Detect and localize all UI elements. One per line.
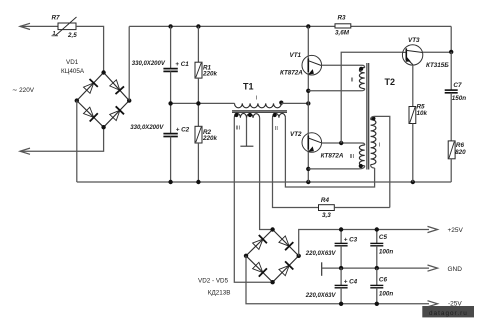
transformer T1 winding II (273, 113, 286, 117)
node bridge VD1 bottom (101, 125, 105, 129)
transformer T2 core (366, 63, 368, 170)
wire +25V rail (299, 230, 429, 256)
node C1-C2 junction (168, 101, 172, 105)
capacitor C5 (100n) (376, 230, 378, 244)
node bridge VD2-VD5 left (244, 254, 248, 258)
capacitor C1 (330uF 200V) (170, 26, 172, 68)
diode VD1.4 (bottom-right arm) (110, 110, 120, 120)
transformer T2 winding II (359, 68, 364, 89)
svg-text:III: III (236, 125, 241, 131)
svg-text:VT1: VT1 (290, 52, 302, 59)
svg-text:КТ315Б: КТ315Б (426, 62, 449, 69)
node C1 top (168, 24, 172, 28)
resistor R5 (10k) (409, 107, 416, 124)
wire bridge VD1 diamond edges (77, 73, 129, 128)
svg-text:220,0Х63V: 220,0Х63V (305, 251, 337, 257)
diode VD1.1 (left-top arm) (84, 83, 94, 93)
svg-text:100n: 100n (379, 248, 394, 255)
node VT3 collector junction (449, 50, 453, 54)
node C3 top (339, 227, 343, 231)
wire bridge left node to minus rail (76, 101, 78, 182)
transistor VT2 (KT872A) (302, 133, 322, 153)
arrow +25V output (428, 226, 438, 232)
transformer T2 winding III (359, 145, 364, 166)
node R1 top (196, 24, 200, 28)
wire T1 II left leg down to R4 (273, 118, 319, 208)
svg-text:100n: 100n (379, 291, 394, 298)
svg-text:R4: R4 (321, 197, 330, 204)
svg-text:КЦ405А: КЦ405А (61, 68, 85, 75)
wire VT3 base to VT2 base junction (341, 52, 402, 143)
wire -25V rail (246, 256, 429, 304)
node T1 winding II phase dot (273, 113, 277, 117)
svg-text:R3: R3 (338, 15, 347, 22)
svg-text:II: II (275, 126, 279, 132)
node bridge VD2-VD5 top (270, 227, 274, 231)
capacitor C6 (100n) (376, 268, 378, 285)
wire GND rail (322, 267, 429, 269)
svg-text:3,6M: 3,6M (335, 29, 350, 36)
node T2 winding I phase dot (371, 116, 375, 120)
arrow -25V output (428, 301, 438, 307)
svg-text:III: III (350, 154, 355, 160)
svg-text:VT3: VT3 (408, 37, 420, 44)
wire VT2 base to T2 winding III top (322, 143, 365, 145)
wire VT2 emitter down to minus rail (307, 152, 309, 182)
node T1 winding IIIb phase dot (248, 113, 252, 117)
svg-text:R7: R7 (52, 15, 61, 22)
svg-text:КТ872А: КТ872А (321, 152, 344, 159)
svg-text:220,0Х63V: 220,0Х63V (305, 293, 337, 299)
svg-text:КТ872А: КТ872А (280, 70, 303, 77)
wire T1 primary to VT1/VT2 midpoint (281, 102, 308, 104)
ground stub bar at output (321, 262, 323, 276)
wire bridge VD2-VD5 diamond edges (246, 230, 299, 283)
transformer T1 primary winding I (235, 103, 282, 107)
node VT2 emitter junction to T2 III (306, 167, 310, 171)
svg-text:C5: C5 (379, 234, 388, 241)
node bridge VD1 top (101, 70, 105, 74)
wire VT1 collector (307, 26, 309, 55)
wire VT2 emitter junction to T2 winding III bottom (308, 166, 364, 169)
diode VD1.3 (left-bottom arm) (84, 107, 94, 117)
wire T1 III center tap to bar (246, 118, 248, 146)
node C5-C6 junction (375, 266, 379, 270)
node C3-C4 junction GND (339, 266, 343, 270)
svg-text:220k: 220k (202, 70, 218, 77)
node R2 bottom (196, 180, 200, 184)
svg-text:C7: C7 (453, 82, 462, 89)
svg-text:T1: T1 (243, 82, 254, 92)
wire T2 winding I bottom curve (371, 165, 375, 168)
svg-text:2,5: 2,5 (67, 32, 77, 39)
capacitor C4 (220uF 63V) (340, 268, 342, 285)
resistor R6 (820) (448, 141, 455, 159)
arrow GND output (428, 265, 438, 271)
resistor R4 (3.3) (319, 205, 335, 211)
svg-text:VD2 - VD5: VD2 - VD5 (198, 277, 229, 284)
svg-text:10k: 10k (417, 110, 428, 117)
wire VT3 emitter to R5 (412, 65, 414, 106)
node T2 winding III phase dot (359, 164, 363, 168)
capacitor C3 (220uF 63V) (340, 230, 342, 244)
diode VD1.2 (top-right arm) (110, 80, 120, 90)
resistor R2 (220k) (197, 103, 199, 126)
transformer T1 winding IIIa (234, 113, 246, 117)
svg-text:I: I (379, 142, 381, 148)
resistor R1 (220k) (197, 26, 199, 62)
resistor R3 (3.6M) in top rail (335, 24, 351, 28)
transformer T2 winding I (371, 120, 376, 165)
wire T1 III left leg to VD2 bridge bottom (234, 118, 272, 282)
node R5 bottom on rail (411, 180, 415, 184)
svg-text:220k: 220k (202, 135, 218, 142)
wire top rail (+DC) (129, 25, 335, 27)
node VT2 base junction (339, 141, 343, 145)
node T1 winding IIIa phase dot (234, 113, 238, 117)
capacitor C7 (150n) (450, 52, 452, 90)
resistor R7 (fusible, 2.5 ohm) (58, 23, 76, 30)
node bridge VD1 left (75, 98, 79, 102)
node R1-R2 junction (196, 101, 200, 105)
svg-text:+ C3: + C3 (344, 237, 358, 244)
node bridge VD1 right (127, 98, 131, 102)
svg-text:330,0Х200V: 330,0Х200V (130, 125, 164, 131)
svg-text:820: 820 (455, 149, 466, 156)
svg-text:II: II (351, 77, 355, 83)
wire minus rail (77, 181, 451, 183)
node T1 primary right end (phase dot) (279, 101, 283, 105)
svg-text:∼ 220V: ∼ 220V (12, 87, 35, 94)
svg-text:+ C1: + C1 (175, 61, 189, 68)
diode VD2 (left-top arm) (253, 239, 263, 249)
wire VT1 emitter to midpoint and VT2 collector (307, 75, 309, 133)
capacitor C2 (330uF 200V) (170, 103, 172, 133)
wire T1 II right leg down to T2 winding I bottom (285, 118, 374, 187)
node T2 winding II phase dot (359, 67, 363, 71)
wire VT3 collector to C7 column (423, 51, 451, 53)
svg-text:+ C4: + C4 (344, 278, 358, 285)
watermark datagor.ru (422, 306, 474, 317)
svg-text:datagor.ru: datagor.ru (429, 310, 468, 317)
svg-text:3,3: 3,3 (322, 212, 331, 219)
svg-text:GND: GND (448, 266, 463, 273)
svg-text:I: I (256, 96, 258, 102)
svg-text:T2: T2 (385, 77, 396, 87)
node C4 bottom (339, 302, 343, 306)
node midpoint T1 primary (306, 101, 310, 105)
svg-text:1: 1 (53, 31, 56, 37)
node C5 top (375, 227, 379, 231)
node bridge VD2-VD5 bottom (270, 280, 274, 284)
node bridge VD2-VD5 right (297, 254, 301, 258)
wire AC input bottom with arrow (20, 148, 30, 154)
svg-text:VD1: VD1 (66, 59, 79, 66)
transformer T1 core (232, 110, 287, 112)
wire mid junction C1C2-R1R2 to T1 (171, 102, 235, 104)
ground bar of T1 center tap (240, 145, 253, 147)
svg-text:+ C2: + C2 (176, 126, 190, 133)
wire T2 winding II bottom to midpoint (308, 89, 364, 91)
wire T1 III right leg to VD2 bridge top (260, 118, 273, 230)
transistor VT1 (KT872A) (302, 55, 322, 75)
svg-text:VT2: VT2 (290, 131, 302, 138)
node C2 bottom (168, 180, 172, 184)
node VT1 collector on rail (306, 24, 310, 28)
transformer T1 winding IIIb (247, 114, 260, 118)
diode VD3 (top-right arm) (279, 236, 289, 246)
wire VT1 base to T2 winding II top (322, 65, 365, 67)
wire R7 to bridge top (76, 26, 104, 72)
svg-text:150n: 150n (452, 95, 467, 102)
transistor VT3 (KT315B) (402, 45, 422, 65)
svg-text:+25V: +25V (448, 227, 464, 234)
node VT1 emitter - T2 winding II junction (306, 89, 310, 93)
wire AC input top with arrow to R7 (20, 23, 30, 29)
node VT2 emitter on rail (306, 180, 310, 184)
diode VD4 (left-bottom arm) (253, 262, 263, 272)
svg-text:330,0Х200V: 330,0Х200V (132, 61, 166, 67)
wire T2 winding I top to R4 right column (371, 116, 390, 207)
svg-text:КД213В: КД213В (208, 289, 231, 296)
diode VD5 (bottom-right arm) (279, 265, 289, 275)
node C6 bottom (375, 302, 379, 306)
wire bridge right node to top rail (128, 26, 130, 100)
svg-text:C6: C6 (379, 276, 388, 283)
